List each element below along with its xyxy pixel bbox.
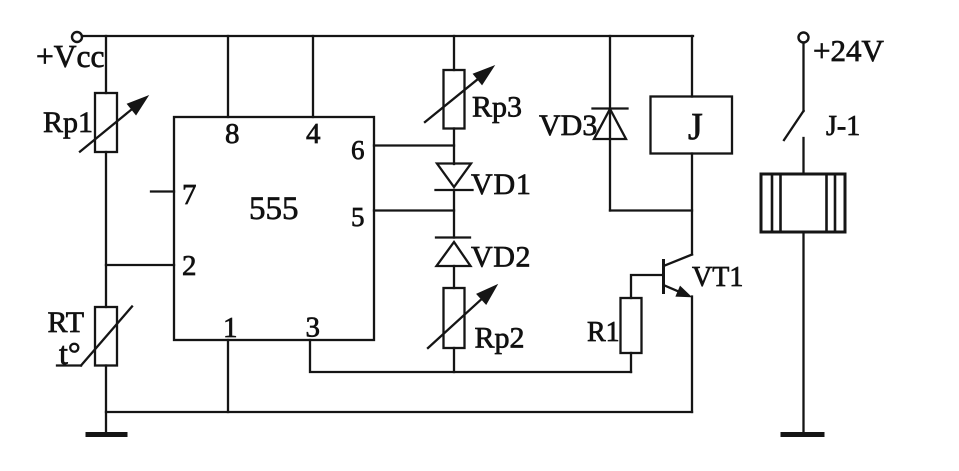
- thermistor RT: [57, 307, 132, 366]
- wire Rp3 to VD1: [453, 129, 455, 165]
- svg-text:6: 6: [351, 135, 365, 165]
- resistor Rp2: [428, 285, 497, 348]
- wire +24V down: [802, 43, 804, 112]
- wire bottom rail: [106, 411, 692, 413]
- wire rail down to relay J: [691, 36, 693, 97]
- wire VD3 bottom to J bottom: [610, 209, 692, 211]
- svg-text:J-1: J-1: [826, 111, 860, 142]
- wire VD2 to Rp2: [453, 266, 455, 288]
- svg-text:7: 7: [182, 179, 197, 211]
- wire rail to VD3: [609, 36, 611, 211]
- wire pin 4 to rail: [312, 36, 314, 117]
- svg-text:Rp3: Rp3: [472, 91, 522, 124]
- svg-text:R1: R1: [587, 317, 620, 348]
- wire pin 8 to rail: [227, 36, 229, 117]
- svg-text:VT1: VT1: [692, 262, 743, 293]
- wire RT to ground: [105, 366, 107, 435]
- svg-text:5: 5: [351, 202, 365, 232]
- wire pin 6: [374, 144, 454, 146]
- ground (left): [88, 432, 125, 437]
- svg-text:8: 8: [225, 118, 240, 150]
- svg-text:555: 555: [249, 191, 299, 227]
- wire rail to Rp3: [453, 36, 455, 70]
- wire top rail +Vcc to J: [82, 35, 693, 37]
- svg-text:3: 3: [306, 312, 321, 344]
- heater load: [761, 174, 845, 232]
- relay coil J: [651, 97, 733, 154]
- wire +Vcc down to Rp1: [105, 36, 107, 93]
- wire pin 3 to R1: [310, 340, 631, 372]
- wire base to R1: [631, 275, 664, 298]
- ground (right): [783, 432, 822, 437]
- wire J to collector: [691, 154, 693, 255]
- resistor R1: [621, 298, 642, 353]
- svg-text:+Vcc: +Vcc: [36, 39, 104, 74]
- diode VD3: [593, 109, 628, 140]
- svg-text:t°: t°: [59, 335, 81, 371]
- wire Rp2 to pin3 rail: [453, 348, 455, 372]
- node +Vcc terminal: [72, 32, 82, 42]
- svg-text:VD2: VD2: [471, 241, 531, 274]
- diode VD1: [436, 164, 473, 191]
- svg-text:2: 2: [182, 250, 197, 282]
- svg-text:4: 4: [306, 118, 321, 150]
- wire load to ground: [802, 232, 804, 434]
- wire pin 5: [374, 209, 454, 211]
- wire pin 1 to bottom rail: [227, 340, 229, 412]
- svg-text:Rp1: Rp1: [43, 106, 93, 139]
- wire VD1 to VD2: [453, 190, 455, 238]
- svg-text:Rp2: Rp2: [475, 322, 525, 355]
- IC U1 555 timer box: [174, 117, 374, 340]
- transistor VT1: [664, 255, 693, 297]
- pin 7 stub: [151, 190, 174, 192]
- wire Rp1 to RT: [105, 152, 107, 307]
- diode VD2: [436, 238, 471, 267]
- node +24V terminal: [799, 33, 809, 43]
- resistor Rp1: [80, 93, 148, 152]
- wire R1 to pin3 rail: [630, 353, 632, 372]
- switch J-1: [784, 111, 804, 174]
- svg-text:VD1: VD1: [471, 168, 532, 201]
- resistor Rp3: [425, 66, 494, 129]
- wire emitter to bottom rail: [691, 297, 693, 413]
- svg-text:J: J: [688, 106, 703, 148]
- svg-text:1: 1: [223, 312, 238, 344]
- svg-text:+24V: +24V: [813, 33, 884, 68]
- svg-text:VD3: VD3: [539, 109, 597, 142]
- wire node to pin 2: [106, 264, 174, 266]
